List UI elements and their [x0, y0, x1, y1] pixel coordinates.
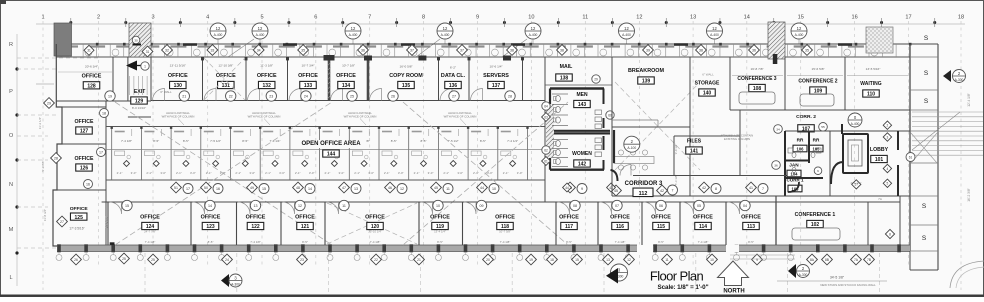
room CONFERENCE 1 102	[775, 196, 777, 245]
wall x325	[324, 202, 326, 245]
svg-text:S: S	[924, 98, 929, 105]
svg-text:16'-8 7/8": 16'-8 7/8"	[750, 67, 763, 71]
svg-text:27: 27	[60, 220, 64, 224]
top door circles	[105, 91, 115, 101]
svg-text:S: S	[924, 35, 929, 42]
svg-text:15: 15	[575, 258, 579, 262]
svg-text:127: 127	[80, 129, 89, 135]
svg-text:Floor Plan: Floor Plan	[650, 269, 704, 284]
svg-text:8'-5": 8'-5"	[302, 240, 308, 244]
wall x236.5	[236, 202, 238, 245]
svg-text:110: 110	[867, 92, 875, 98]
diamond 12	[624, 254, 635, 265]
svg-text:9'-0 1/8": 9'-0 1/8"	[674, 144, 678, 155]
svg-text:COPY ROOM: COPY ROOM	[389, 73, 423, 79]
svg-text:WITH FACE OF COLUMN: WITH FACE OF COLUMN	[444, 115, 477, 119]
svg-text:OFFICE: OFFICE	[295, 215, 315, 221]
svg-text:13: 13	[690, 15, 696, 21]
strip divider y163	[910, 162, 938, 164]
row grid dashed horizontals	[17, 57, 100, 59]
svg-text:16: 16	[851, 15, 857, 21]
svg-text:OFFICE: OFFICE	[168, 73, 188, 79]
svg-text:CORR. 2: CORR. 2	[796, 114, 816, 120]
svg-text:7: 7	[762, 187, 764, 191]
svg-text:37: 37	[410, 48, 414, 52]
svg-text:25: 25	[122, 257, 126, 261]
band window dashes	[62, 45, 78, 47]
breakroom table	[614, 157, 654, 164]
svg-text:61: 61	[544, 159, 548, 163]
svg-text:19: 19	[108, 94, 112, 98]
svg-text:1: 1	[41, 15, 44, 21]
svg-text:44: 44	[565, 186, 569, 190]
svg-text:12: 12	[351, 26, 356, 31]
bottom right dims	[777, 280, 887, 282]
svg-text:5'-9 7/8": 5'-9 7/8"	[41, 161, 45, 172]
svg-text:SERVERS: SERVERS	[483, 73, 509, 79]
svg-text:106: 106	[797, 146, 805, 151]
wall end dots top offices	[201, 57, 204, 60]
right strip walls	[937, 44, 939, 270]
svg-text:24: 24	[304, 94, 308, 98]
svg-text:A-300: A-300	[955, 78, 964, 82]
svg-text:7A: 7A	[878, 197, 882, 201]
section marker right2	[788, 264, 796, 278]
wall x726	[725, 202, 727, 245]
svg-text:141: 141	[690, 149, 699, 155]
exterior top wall band	[56, 43, 938, 45]
svg-text:CONFERENCE 1: CONFERENCE 1	[795, 212, 836, 218]
svg-text:MEN: MEN	[576, 92, 588, 98]
svg-text:3'-0": 3'-0"	[249, 171, 255, 175]
svg-text:5: 5	[260, 15, 263, 21]
svg-text:OFFICE: OFFICE	[741, 215, 761, 221]
wall x462.5	[462, 202, 464, 245]
strip divider y131	[910, 130, 938, 132]
svg-text:44: 44	[480, 186, 484, 190]
svg-text:7'-4 1/8": 7'-4 1/8"	[500, 240, 511, 244]
svg-text:15'-6 5/8": 15'-6 5/8"	[811, 67, 824, 71]
svg-text:9: 9	[476, 15, 479, 21]
svg-text:L: L	[9, 275, 12, 281]
svg-text:A-400: A-400	[214, 33, 223, 37]
svg-text:3'-0": 3'-0"	[517, 171, 523, 175]
top wall diamonds	[162, 45, 173, 56]
svg-text:36: 36	[361, 48, 365, 52]
diamond 10	[707, 254, 718, 265]
women sinks	[595, 138, 602, 143]
svg-text:8'-5": 8'-5"	[437, 240, 443, 244]
svg-text:WITH FACE OF COLUMN: WITH FACE OF COLUMN	[162, 115, 195, 119]
column grid dashed lines	[42, 21, 44, 290]
strip divider y196	[910, 195, 938, 197]
svg-text:101: 101	[875, 157, 884, 163]
leader at left wall	[36, 83, 54, 85]
lobby small diamonds	[883, 121, 891, 129]
svg-text:28: 28	[54, 156, 58, 160]
svg-text:8'-5": 8'-5"	[183, 139, 189, 143]
svg-text:WOMEN: WOMEN	[572, 151, 592, 157]
svg-text:7'-4 1/8": 7'-4 1/8"	[121, 139, 132, 143]
men sinks	[595, 110, 602, 115]
svg-text:126: 126	[80, 166, 89, 172]
wall x522.5	[522, 57, 524, 101]
svg-text:OFFICE: OFFICE	[257, 73, 277, 79]
top office door arcs	[153, 89, 165, 101]
wall x680	[679, 202, 681, 245]
svg-text:16'-2 3/8": 16'-2 3/8"	[967, 188, 971, 201]
svg-text:11'-8 3/4": 11'-8 3/4"	[43, 209, 47, 221]
svg-text:07: 07	[615, 204, 619, 208]
diagonal dashed X1	[115, 102, 332, 245]
svg-text:RR: RR	[797, 138, 804, 143]
svg-text:EXISTING COLUMN: EXISTING COLUMN	[724, 137, 750, 141]
svg-text:3'-0": 3'-0"	[309, 171, 315, 175]
section marker bottom-left	[221, 274, 229, 287]
bottom wall band	[57, 245, 910, 252]
svg-text:112: 112	[639, 191, 648, 197]
stippled block	[866, 27, 893, 53]
hatched wall 133/134	[328, 57, 331, 101]
svg-text:P: P	[9, 89, 13, 95]
wall x598	[597, 202, 599, 245]
svg-text:12: 12	[797, 26, 802, 31]
lobby right wall	[897, 131, 899, 150]
svg-text:49: 49	[250, 186, 254, 190]
svg-text:S: S	[924, 70, 929, 77]
rr partition walls	[808, 132, 810, 163]
svg-text:OFFICE: OFFICE	[246, 215, 266, 221]
svg-text:48: 48	[296, 186, 300, 190]
svg-text:JAN: JAN	[789, 163, 799, 168]
svg-text:15: 15	[125, 204, 129, 208]
svg-text:MAIL: MAIL	[560, 64, 574, 70]
wall x469	[468, 57, 470, 101]
svg-text:08: 08	[573, 204, 577, 208]
svg-text:M: M	[9, 227, 14, 233]
corner mark top-left	[0, 0, 6, 4]
svg-text:14: 14	[208, 204, 212, 208]
svg-text:OFFICE: OFFICE	[610, 215, 630, 221]
svg-text:115: 115	[657, 224, 665, 230]
svg-text:18: 18	[958, 15, 964, 21]
svg-text:35: 35	[301, 48, 305, 52]
diamond 26	[71, 254, 82, 265]
exterior right wall	[909, 44, 911, 251]
svg-text:17: 17	[186, 187, 190, 191]
svg-text:10'-7 5/8": 10'-7 5/8"	[499, 230, 511, 234]
svg-text:A-400: A-400	[622, 33, 631, 37]
svg-text:10: 10	[492, 187, 496, 191]
svg-text:39: 39	[646, 48, 650, 52]
svg-text:OPEN OFFICE AREA: OPEN OFFICE AREA	[301, 141, 361, 147]
svg-text:130: 130	[174, 83, 183, 89]
svg-text:29: 29	[594, 77, 598, 81]
svg-text:2'-1": 2'-1"	[473, 171, 479, 175]
bottom band dark ticks	[57, 244, 61, 252]
svg-text:27: 27	[452, 94, 456, 98]
svg-text:17: 17	[99, 150, 103, 154]
svg-text:10'-6 1/4": 10'-6 1/4"	[489, 65, 502, 69]
lobby ref circle	[848, 113, 862, 127]
svg-text:WAITING: WAITING	[860, 81, 881, 87]
open office upper comb	[106, 126, 545, 128]
svg-text:133: 133	[304, 83, 313, 89]
svg-text:9: 9	[581, 187, 583, 191]
svg-text:3'-0": 3'-0"	[160, 171, 166, 175]
svg-text:50: 50	[204, 186, 208, 190]
svg-text:12: 12	[636, 15, 642, 21]
svg-text:8'-5": 8'-5"	[748, 240, 754, 244]
svg-text:A-400: A-400	[441, 33, 450, 37]
svg-text:7'-5 1/2": 7'-5 1/2"	[448, 139, 459, 143]
north arrow	[718, 261, 749, 286]
svg-text:134: 134	[342, 83, 351, 89]
svg-text:32: 32	[165, 48, 169, 52]
left door circles	[100, 109, 109, 118]
rr fixtures	[788, 148, 793, 153]
svg-text:45: 45	[614, 189, 618, 193]
svg-text:31: 31	[87, 49, 91, 53]
diagonal dashed X room 120	[327, 203, 417, 244]
corridor detail circles	[624, 136, 640, 152]
svg-text:4: 4	[887, 167, 889, 171]
svg-text:12: 12	[443, 26, 448, 31]
svg-text:116: 116	[616, 224, 624, 230]
svg-text:A-400: A-400	[851, 122, 860, 126]
svg-text:10: 10	[710, 258, 714, 262]
wall x127.9	[127, 57, 129, 101]
svg-text:OFFICE: OFFICE	[201, 215, 221, 221]
bottom edge thick line	[0, 295, 984, 297]
diagonal dashed X breakroom	[615, 82, 700, 170]
svg-text:28: 28	[508, 94, 512, 98]
room WAITING 110	[844, 57, 846, 110]
svg-text:A-400: A-400	[529, 33, 538, 37]
svg-text:8'-5": 8'-5"	[208, 240, 214, 244]
svg-text:3'-0": 3'-0"	[190, 171, 196, 175]
svg-text:OFFICE: OFFICE	[365, 215, 385, 221]
svg-text:OFFICE: OFFICE	[140, 215, 160, 221]
rr block walls	[785, 130, 910, 132]
svg-text:11: 11	[665, 258, 669, 262]
workstation diamonds	[124, 161, 130, 167]
svg-text:17: 17	[905, 15, 911, 21]
svg-text:3: 3	[887, 135, 889, 139]
svg-text:A-400: A-400	[256, 33, 265, 37]
svg-text:12: 12	[624, 26, 629, 31]
svg-text:23: 23	[300, 258, 304, 262]
room CONFERENCE 2 109	[784, 57, 786, 110]
svg-text:09: 09	[480, 204, 484, 208]
svg-text:139: 139	[642, 79, 651, 85]
svg-text:63: 63	[544, 115, 548, 119]
row grid dots	[15, 67, 18, 70]
svg-text:135: 135	[402, 83, 411, 89]
svg-text:8: 8	[889, 232, 891, 236]
diamond 8	[885, 229, 894, 238]
svg-text:26: 26	[74, 258, 78, 262]
diamond 13	[603, 254, 614, 265]
svg-text:62: 62	[544, 148, 548, 152]
svg-text:144: 144	[327, 152, 336, 158]
svg-text:41: 41	[749, 186, 753, 190]
svg-text:S: S	[922, 203, 927, 210]
wall x287.5	[287, 57, 289, 101]
svg-text:24: 24	[225, 258, 229, 262]
room OPEN OFFICE AREA 144	[296, 140, 366, 148]
svg-text:132: 132	[263, 83, 272, 89]
room BREAKROOM 139	[611, 57, 613, 196]
corridor3 diamonds	[611, 185, 622, 196]
svg-text:7'-4 1/8": 7'-4 1/8"	[370, 240, 381, 244]
room FILES 141	[673, 136, 675, 176]
strip divider y225	[910, 224, 938, 226]
svg-text:10'-7 3/4": 10'-7 3/4"	[301, 64, 314, 68]
diamond 8B	[822, 254, 833, 265]
svg-text:47: 47	[342, 186, 346, 190]
section marker right	[943, 70, 951, 82]
svg-text:3'-0": 3'-0"	[131, 171, 137, 175]
svg-text:2'-1": 2'-1"	[503, 171, 509, 175]
svg-text:OFFICE: OFFICE	[495, 215, 515, 221]
svg-text:37: 37	[460, 48, 464, 52]
top dimension line	[36, 23, 965, 25]
restroom outer bold walls	[550, 87, 604, 89]
svg-text:5: 5	[887, 182, 889, 186]
diamond 22	[371, 254, 382, 265]
svg-text:OFFICE: OFFICE	[216, 73, 236, 79]
svg-text:20'-6 3/4": 20'-6 3/4"	[85, 65, 98, 69]
dark window head dashes	[183, 43, 197, 46]
svg-text:2'-1": 2'-1"	[235, 171, 241, 175]
svg-text:13'-5 5/16": 13'-5 5/16"	[866, 67, 881, 71]
bottom offices top wall	[102, 201, 776, 203]
svg-text:136: 136	[449, 83, 458, 89]
svg-text:30: 30	[134, 38, 138, 42]
bottom band door gaps	[637, 245, 653, 253]
room 128 dim line	[58, 71, 112, 73]
svg-text:102: 102	[811, 222, 820, 228]
svg-text:8'-5": 8'-5"	[391, 139, 397, 143]
svg-text:7'-4 1/8": 7'-4 1/8"	[145, 240, 156, 244]
svg-text:A-400: A-400	[795, 33, 804, 37]
svg-text:12: 12	[400, 187, 404, 191]
svg-text:2'-1": 2'-1"	[354, 171, 360, 175]
svg-text:6: 6	[314, 15, 317, 21]
room STORAGE 140	[689, 57, 691, 196]
svg-text:2'-1": 2'-1"	[443, 171, 449, 175]
svg-text:DATA CL.: DATA CL.	[441, 73, 466, 79]
svg-text:2: 2	[97, 15, 100, 21]
svg-text:38: 38	[560, 48, 564, 52]
svg-text:10'-7 1/8": 10'-7 1/8"	[342, 64, 355, 68]
svg-text:NEW STUDS AND STUCCO FACING WA: NEW STUDS AND STUCCO FACING WALL	[820, 283, 876, 287]
diamond 7A	[851, 254, 862, 265]
left rooms walls	[56, 106, 106, 108]
svg-text:2'-1": 2'-1"	[384, 171, 390, 175]
svg-text:STORAGE: STORAGE	[695, 81, 720, 87]
svg-text:7'-5 1/2": 7'-5 1/2"	[210, 139, 221, 143]
diamond 21	[414, 254, 425, 265]
svg-text:140: 140	[703, 91, 712, 97]
top dim dots	[69, 21, 72, 24]
svg-text:142: 142	[578, 162, 587, 168]
svg-text:12: 12	[712, 26, 717, 31]
svg-text:105: 105	[813, 146, 821, 151]
svg-text:24'-7 7/8": 24'-7 7/8"	[144, 230, 156, 234]
diamond+circle near hatch	[84, 45, 94, 55]
svg-text:1: 1	[144, 64, 146, 68]
svg-text:13: 13	[254, 204, 258, 208]
svg-text:14: 14	[308, 187, 312, 191]
svg-text:Scale: 1/8" = 1'-0": Scale: 1/8" = 1'-0"	[658, 284, 709, 291]
strip divider y90	[910, 89, 938, 91]
svg-text:WITH FACE OF COLUMN: WITH FACE OF COLUMN	[344, 115, 377, 119]
svg-text:35: 35	[805, 48, 809, 52]
svg-text:104: 104	[791, 171, 799, 176]
svg-text:S: S	[922, 235, 927, 242]
diamond 20	[483, 254, 494, 265]
strip divider y110	[910, 109, 938, 111]
svg-text:64: 64	[544, 104, 548, 108]
ref circle leaders	[228, 39, 254, 57]
men stalls	[552, 93, 568, 95]
exit stair lines	[129, 76, 131, 95]
svg-text:20: 20	[486, 258, 490, 262]
band window tag circles	[58, 49, 65, 56]
svg-text:11'-3 1/8": 11'-3 1/8"	[260, 64, 273, 68]
stair treads outside	[912, 111, 983, 113]
room CONFERENCE 3 108	[729, 57, 731, 110]
diamond 23	[297, 254, 308, 265]
svg-text:N: N	[9, 182, 13, 188]
svg-text:123: 123	[206, 224, 215, 230]
svg-text:6" WALL: 6" WALL	[702, 73, 714, 77]
diagonal dashed X room 131	[204, 58, 245, 100]
svg-text:23: 23	[269, 94, 273, 98]
corridor diamond+circle pairs	[171, 182, 182, 193]
wall x642	[641, 202, 643, 245]
women stalls	[552, 139, 568, 141]
svg-text:CONFERENCE 3: CONFERENCE 3	[737, 76, 776, 82]
svg-text:13'-11 5/16": 13'-11 5/16"	[170, 64, 186, 68]
svg-text:12: 12	[216, 26, 221, 31]
svg-text:A-400: A-400	[349, 33, 358, 37]
strip X	[911, 133, 937, 163]
svg-text:9: 9	[756, 258, 758, 262]
svg-text:38: 38	[699, 48, 703, 52]
svg-text:05: 05	[697, 204, 701, 208]
svg-text:4: 4	[206, 15, 209, 21]
top offices bottom wall	[151, 100, 545, 102]
svg-text:8: 8	[422, 15, 425, 21]
svg-text:2'-1": 2'-1"	[325, 171, 331, 175]
svg-text:125: 125	[75, 215, 84, 221]
elevator	[843, 134, 868, 173]
svg-text:8'-0 13/16": 8'-0 13/16"	[132, 106, 146, 110]
svg-text:2'-1": 2'-1"	[206, 171, 212, 175]
svg-text:36: 36	[774, 163, 778, 167]
svg-text:11: 11	[342, 204, 346, 208]
plumbing wall hatch	[546, 104, 554, 158]
svg-text:8'-5": 8'-5"	[242, 139, 248, 143]
svg-text:51: 51	[174, 186, 178, 190]
svg-text:6" WALL: 6" WALL	[160, 90, 172, 94]
left wall diamonds	[44, 98, 55, 109]
wall x419	[418, 202, 420, 245]
diamond 9	[752, 254, 763, 265]
